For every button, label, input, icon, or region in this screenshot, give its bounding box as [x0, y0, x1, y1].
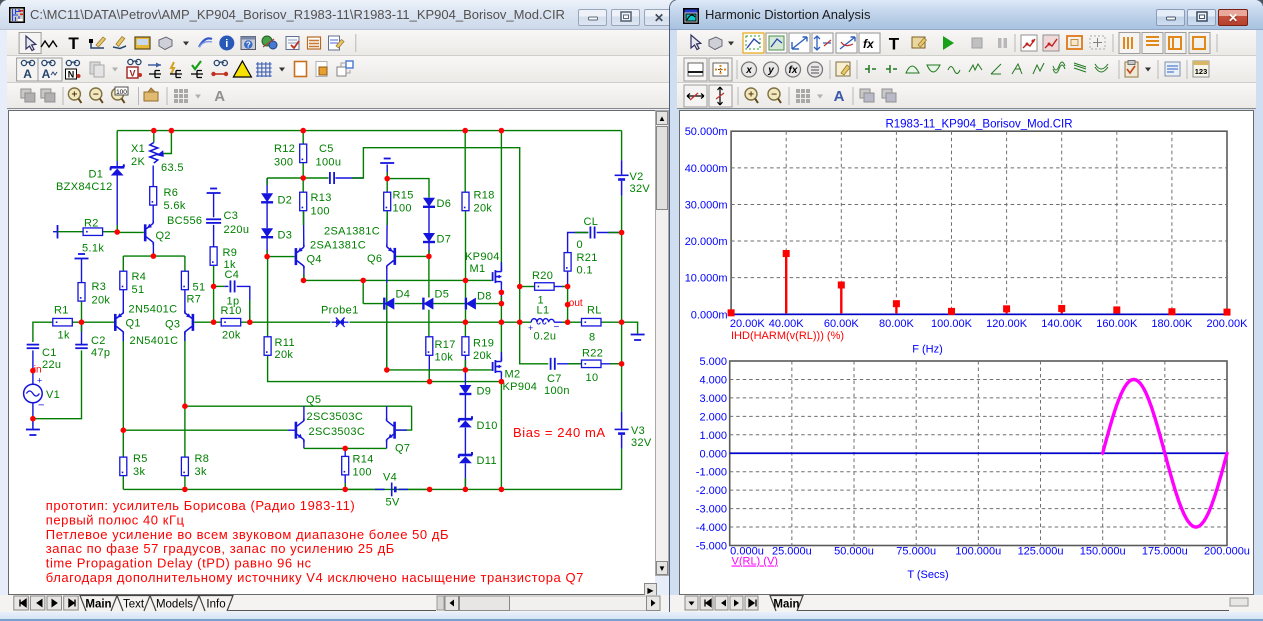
svg-text:Q6: Q6	[367, 253, 382, 265]
wire D1 to R2 node	[116, 161, 118, 167]
svg-text:M2: M2	[505, 369, 521, 381]
svg-text:C2: C2	[91, 335, 106, 347]
wire R8 column	[184, 406, 186, 457]
svg-text:5.000: 5.000	[699, 356, 727, 368]
svg-text:BC556: BC556	[167, 215, 202, 227]
svg-text:F (Hz): F (Hz)	[912, 344, 943, 356]
wire Q3 collector down	[184, 331, 186, 406]
transient plot x labels	[730, 546, 1250, 558]
svg-text:220u: 220u	[224, 224, 250, 236]
wire Q3 collector rail to Q7	[185, 405, 412, 407]
wire C5 right corner up	[335, 177, 363, 179]
wire 519 rail corner to C7	[520, 322, 549, 364]
svg-text:R17: R17	[435, 339, 456, 351]
potentiometer X1	[150, 143, 158, 164]
svg-text:Петлевое усиление во всем звук: Петлевое усиление во всем звуковом диапа…	[46, 527, 449, 542]
wire probe to D-row column	[350, 321, 466, 323]
wire M2 gate rail	[387, 369, 492, 371]
wire X1 top	[153, 131, 155, 143]
wire D7 to Q6 base node	[428, 243, 430, 257]
svg-text:3.000: 3.000	[699, 393, 727, 405]
wire Q7 collector tap	[386, 406, 388, 421]
resistor R8	[181, 457, 188, 476]
wire D6-D7 column	[428, 207, 430, 233]
wire D10-D11	[464, 428, 466, 455]
svg-text:20k: 20k	[474, 203, 493, 215]
svg-text:22u: 22u	[42, 359, 61, 371]
svg-text:40.000m: 40.000m	[685, 163, 728, 175]
wire V3 to bottom rail	[621, 449, 623, 490]
svg-text:150.000u: 150.000u	[1080, 546, 1126, 558]
svg-text:R1: R1	[54, 305, 69, 317]
junction dots 381 rail	[427, 379, 433, 385]
wire D5 column to R17	[428, 310, 430, 337]
junction dot R22 right	[619, 361, 625, 367]
diode D8	[465, 298, 467, 310]
battery V3	[621, 412, 623, 429]
capacitor CL	[589, 227, 591, 239]
svg-text:fx: fx	[789, 65, 798, 76]
resistor R22	[582, 360, 602, 368]
svg-text:50.000m: 50.000m	[685, 126, 728, 138]
svg-text:10: 10	[586, 372, 599, 384]
svg-text:5.1k: 5.1k	[82, 243, 104, 255]
svg-text:M1: M1	[470, 263, 486, 275]
junction dot R18 bottom	[463, 278, 469, 284]
junction dot Q6 base	[426, 254, 432, 260]
wire D9 top	[464, 370, 466, 385]
svg-text:30.000m: 30.000m	[685, 199, 728, 211]
resistor R14	[342, 456, 349, 475]
svg-text:C5: C5	[319, 143, 334, 155]
svg-text:47p: 47p	[91, 347, 110, 359]
harmonic zero baseline	[731, 313, 1227, 315]
wire R15 to Q6 emitter	[386, 211, 388, 247]
vertical scrollbar	[655, 110, 669, 576]
svg-text:20.00K: 20.00K	[730, 318, 766, 330]
wire bottom rail right	[501, 488, 621, 490]
svg-text:KP904: KP904	[465, 251, 500, 263]
wire Q4 base	[267, 256, 295, 258]
capacitor C3	[206, 218, 221, 220]
junction dots M2 gate rail	[384, 367, 390, 373]
wire R14 bottom	[344, 475, 346, 489]
svg-text:51: 51	[193, 282, 206, 294]
svg-text:Q5: Q5	[306, 394, 321, 406]
svg-text:первый полюс 40 кГц: первый полюс 40 кГц	[46, 512, 185, 527]
svg-text:R19: R19	[473, 338, 494, 350]
wire right rail CL to RL	[621, 233, 623, 323]
wire R5 column bottom	[122, 476, 124, 490]
svg-text:Probe1: Probe1	[321, 305, 359, 317]
wire C7 right to R22	[557, 363, 581, 365]
wire bottom rail	[123, 488, 501, 490]
harmonic bars IHD	[728, 250, 1231, 316]
svg-text:2SA1381C: 2SA1381C	[310, 240, 366, 252]
svg-text:C4: C4	[225, 269, 240, 281]
wire 381 rail to M2 source	[430, 381, 502, 383]
svg-text:0.000: 0.000	[699, 448, 727, 460]
wire top +32V rail	[117, 130, 621, 132]
resistor RL	[582, 318, 602, 326]
svg-text:Models: Models	[156, 599, 193, 611]
wire R13 top	[302, 178, 304, 192]
svg-text:63.5: 63.5	[161, 162, 184, 174]
inductor L1	[531, 319, 554, 323]
left window title bar	[0, 0, 677, 30]
resistor R2	[83, 228, 103, 236]
diode D5	[422, 298, 424, 310]
svg-text:160.00K: 160.00K	[1096, 318, 1138, 330]
resistor R19	[462, 337, 469, 356]
svg-text:D10: D10	[477, 420, 498, 432]
wire C2 to main node	[81, 322, 83, 344]
svg-text:R8: R8	[195, 453, 210, 465]
svg-text:300: 300	[274, 157, 293, 169]
resistor R20	[535, 283, 555, 291]
wire rail to V2	[621, 131, 623, 161]
wire top rail to M1 drain	[500, 131, 502, 268]
wire mid rail to R4	[122, 256, 124, 271]
ground above C3	[210, 188, 217, 190]
capacitor C2	[75, 344, 88, 346]
resistor R1	[53, 318, 73, 326]
wire R15 node to D6 top	[387, 179, 429, 198]
svg-text:5V: 5V	[386, 497, 400, 509]
mosfet M1	[492, 272, 494, 281]
svg-text:75.000u: 75.000u	[896, 546, 936, 558]
svg-text:3k: 3k	[133, 466, 145, 478]
svg-text:20.000m: 20.000m	[685, 236, 728, 248]
svg-text:120.00K: 120.00K	[986, 318, 1028, 330]
wire gate rail to D-row corner	[362, 280, 364, 303]
junction dots input stage	[121, 427, 127, 433]
resistor R6	[150, 187, 157, 206]
svg-text:запас по фазе 57 градусов, зап: запас по фазе 57 градусов, запас по усил…	[46, 541, 395, 556]
svg-text:KP904: KP904	[503, 381, 538, 393]
svg-text:R22: R22	[582, 348, 603, 360]
svg-text:Q1: Q1	[126, 318, 141, 330]
svg-text:D7: D7	[437, 234, 452, 246]
harmonic plot frame	[731, 131, 1227, 314]
svg-text:51: 51	[132, 284, 145, 296]
wire R11 bottom corner	[268, 356, 430, 382]
svg-text:32V: 32V	[631, 437, 652, 449]
svg-text:3k: 3k	[195, 466, 207, 478]
svg-text:D3: D3	[278, 230, 293, 242]
wire R2 to D1 node	[103, 231, 117, 233]
svg-text:IHD(HARM(v(RL))) (%): IHD(HARM(v(RL))) (%)	[731, 330, 844, 342]
wire right rail R22 to V3	[621, 364, 623, 412]
wire C4 node down to main	[213, 286, 215, 322]
transistor Q3 (PNP mirrored)	[192, 314, 195, 331]
wire gate rail (Q4 collector to M1 gate)	[304, 279, 492, 281]
svg-text:100.000u: 100.000u	[955, 546, 1001, 558]
wire out to RL	[567, 321, 581, 323]
wire V4 left	[345, 488, 384, 490]
junction dot Q4 collector	[301, 278, 307, 284]
svg-text:BZX84C12: BZX84C12	[56, 181, 113, 193]
ground above R3	[78, 253, 85, 255]
wire R12 to C5 node	[302, 163, 304, 178]
junction dots M1 source	[499, 290, 505, 296]
resistor R12	[300, 144, 307, 163]
svg-text:100: 100	[311, 206, 330, 218]
transient plot grid	[730, 361, 1227, 546]
wire D1 branch top	[116, 131, 118, 161]
svg-text:V1: V1	[46, 389, 60, 401]
svg-text:D8: D8	[477, 291, 492, 303]
svg-text:10k: 10k	[435, 352, 454, 364]
wire gnd to R3	[81, 259, 83, 283]
wire R20 left	[520, 286, 535, 288]
svg-text:0.000m: 0.000m	[691, 309, 728, 321]
resistor R4	[120, 271, 127, 290]
svg-text:80.00K: 80.00K	[879, 318, 915, 330]
wire top rail to R12	[302, 131, 304, 145]
wire RL gnd stub	[622, 322, 638, 334]
wire R9/C4 node	[213, 266, 215, 287]
left toolbars	[7, 30, 670, 56]
wire D2 top	[266, 178, 268, 193]
wire C3 to R9	[213, 225, 215, 247]
svg-text:20k: 20k	[473, 350, 492, 362]
svg-text:R3: R3	[92, 281, 107, 293]
svg-text:125.000u: 125.000u	[1018, 546, 1064, 558]
svg-text:2N5401C: 2N5401C	[129, 304, 178, 316]
svg-text:2SC3503C: 2SC3503C	[309, 426, 366, 438]
wire input node to R1	[33, 322, 53, 342]
transistor Q2 (PNP)	[144, 224, 147, 241]
wire Q4 collector down	[303, 266, 305, 281]
wire Q6 emitter column down	[386, 266, 388, 370]
svg-text:-3.000: -3.000	[696, 504, 727, 516]
svg-text:R21: R21	[577, 252, 598, 264]
wire Q1 collector to Q5 base	[123, 429, 288, 431]
wire 519 rail down	[519, 287, 521, 323]
svg-text:D4: D4	[396, 289, 411, 301]
svg-text:+: +	[528, 323, 533, 333]
diode D4	[383, 298, 385, 310]
node in	[30, 368, 36, 374]
svg-text:R4: R4	[132, 271, 147, 283]
wire main to M-column	[465, 321, 519, 323]
svg-text:time Propagation Delay (tPD) р: time Propagation Delay (tPD) равно 96 нс	[46, 556, 312, 571]
harmonic plot x labels	[730, 318, 1248, 330]
transistor Q6 (PNP mirrored)	[393, 248, 396, 265]
svg-text:прототип: усилитель Борисова (: прототип: усилитель Борисова (Радио 1983…	[46, 498, 355, 513]
wire D9-D10	[464, 395, 466, 420]
svg-text:−: −	[771, 90, 777, 101]
wire Q4 base node down R11	[267, 257, 269, 337]
resistor R15	[384, 192, 391, 211]
svg-text:20k: 20k	[222, 330, 241, 342]
wire mid rail (Q2 to R4/R7)	[123, 255, 185, 257]
junction dots left	[30, 416, 36, 422]
svg-text:R14: R14	[353, 454, 374, 466]
svg-text:D9: D9	[477, 386, 492, 398]
svg-text:123: 123	[1195, 67, 1208, 76]
wire R19 top	[464, 322, 466, 337]
wire in node to V1	[32, 371, 34, 385]
wire Q5 collector tap	[303, 406, 305, 421]
svg-text:140.00K: 140.00K	[1041, 318, 1083, 330]
wire C1 to in node	[32, 350, 34, 370]
wire C5 left	[303, 177, 328, 179]
wire D5 column (Q6 base node down)	[428, 256, 430, 297]
wire R19 bottom	[464, 356, 466, 370]
svg-text:Q3: Q3	[165, 319, 180, 331]
svg-text:100: 100	[393, 203, 412, 215]
wire R7 to Q3 emitter	[184, 290, 186, 314]
schematic client area	[8, 110, 655, 595]
svg-text:A: A	[834, 88, 845, 105]
node out	[565, 302, 571, 308]
transistor Q1 (PNP)	[114, 314, 117, 331]
svg-text:Q7: Q7	[395, 443, 410, 455]
svg-text:in: in	[34, 365, 42, 376]
wire R3 to main node	[81, 301, 83, 322]
probe Probe1	[332, 321, 338, 323]
svg-text:D5: D5	[435, 289, 450, 301]
svg-text:D2: D2	[278, 195, 293, 207]
transient zero line	[730, 452, 1227, 454]
zener diode D11	[458, 454, 472, 457]
svg-text:+: +	[37, 376, 42, 386]
capacitor C4	[229, 280, 231, 292]
capacitor C5	[329, 172, 331, 184]
svg-text:−: −	[38, 400, 44, 412]
svg-text:R9: R9	[223, 247, 238, 259]
svg-text:8: 8	[589, 332, 595, 344]
wire R15 gnd stem	[386, 165, 388, 179]
wire RL to right rail	[601, 321, 622, 323]
junction dot Q4 base	[264, 254, 270, 260]
svg-text:200.000u: 200.000u	[1204, 546, 1250, 558]
svg-text:20k: 20k	[92, 295, 111, 307]
wire R13 to Q4 emitter	[303, 211, 305, 247]
resistor R11	[264, 337, 271, 356]
svg-text:fx: fx	[863, 37, 875, 51]
svg-text:0.2u: 0.2u	[534, 331, 557, 343]
wire D-row	[363, 303, 384, 305]
svg-text:RL: RL	[587, 305, 602, 317]
svg-text:2SC3503C: 2SC3503C	[307, 411, 364, 423]
svg-text:y: y	[767, 65, 774, 76]
diode D7	[423, 233, 435, 242]
harmonic plot grid	[731, 131, 1227, 314]
svg-text:2.000: 2.000	[699, 411, 727, 423]
svg-text:-4.000: -4.000	[696, 522, 727, 534]
svg-text:20k: 20k	[275, 349, 294, 361]
wire C3 gnd stem	[213, 193, 215, 217]
wire Q7 base corner	[396, 406, 412, 430]
diode D3	[261, 228, 273, 237]
svg-text:R6: R6	[164, 187, 179, 199]
junction dot R12/C5/R13	[300, 175, 306, 181]
svg-text:Text: Text	[123, 599, 145, 611]
wire V2 to CL node	[621, 196, 623, 233]
svg-text:R1983-11_KP904_Borisov_Mod.CIR: R1983-11_KP904_Borisov_Mod.CIR	[885, 119, 1072, 131]
svg-text:4.000: 4.000	[699, 374, 727, 386]
svg-text:C3: C3	[224, 210, 239, 222]
wire R21 bottom to out	[567, 272, 569, 287]
wire V1 to C2 column	[33, 350, 82, 418]
wire R1 to main node	[72, 321, 114, 323]
svg-text:180.00K: 180.00K	[1151, 318, 1193, 330]
svg-text:x: x	[745, 65, 752, 76]
svg-text:Q2: Q2	[156, 230, 171, 242]
svg-text:V4: V4	[383, 472, 397, 484]
svg-text:R2: R2	[84, 218, 99, 230]
svg-text:A: A	[214, 88, 225, 105]
svg-text:D6: D6	[437, 198, 452, 210]
svg-text:100.00K: 100.00K	[931, 318, 973, 330]
svg-text:CL: CL	[584, 216, 599, 228]
svg-text:X1: X1	[131, 143, 145, 155]
svg-text:Info: Info	[206, 599, 225, 611]
svg-text:N: N	[68, 70, 75, 80]
wire Q5 emitter	[303, 440, 305, 449]
junction dots R20	[517, 284, 523, 290]
wire R18 node to D8 bar	[465, 280, 467, 297]
plot client area	[679, 110, 1254, 595]
junction dots R9/C4	[211, 284, 217, 290]
tab bar	[0, 595, 677, 612]
svg-text:200.00K: 200.00K	[1207, 318, 1249, 330]
wire Q6 base to D7 node	[396, 255, 429, 257]
ground above R15	[384, 158, 391, 160]
resistor R9	[210, 247, 217, 265]
wire main horizontal Q3 to R10	[194, 321, 221, 323]
svg-text:5.6k: 5.6k	[164, 200, 186, 212]
battery V2	[621, 160, 623, 174]
svg-text:Main: Main	[85, 599, 111, 611]
junction dot D-row left	[360, 278, 366, 284]
wire X1 to R6	[152, 166, 154, 187]
transistor Q5 (NPN)	[295, 422, 298, 439]
wire emitter join	[304, 447, 387, 449]
wire M1 source column	[500, 286, 502, 304]
junction dot CL	[619, 230, 625, 236]
wire R22 to right rail	[601, 363, 622, 365]
wire D3 to Q4 base node	[266, 238, 268, 257]
svg-text:T (Secs): T (Secs)	[907, 569, 948, 581]
svg-text:1.000: 1.000	[699, 430, 727, 442]
resistor R17	[426, 337, 433, 356]
svg-text:?: ?	[246, 41, 251, 50]
resistor R3	[78, 283, 85, 302]
svg-text:V: V	[129, 69, 135, 79]
harmonic plot y labels	[685, 126, 728, 321]
svg-text:R20: R20	[532, 270, 553, 282]
capacitor C1	[27, 344, 40, 346]
svg-text:32V: 32V	[630, 183, 651, 195]
svg-text:V(RL) (V): V(RL) (V)	[732, 556, 778, 568]
svg-text:0: 0	[577, 239, 583, 251]
junction dot D1/R2/Q2	[114, 229, 120, 235]
svg-text:-2.000: -2.000	[696, 485, 727, 497]
transistor Q4 (PNP)	[295, 248, 298, 265]
wire M2 drain	[500, 322, 502, 361]
svg-text:D1: D1	[89, 169, 104, 181]
svg-text:+: +	[748, 90, 754, 101]
wire R17 bottom to 381 rail	[428, 356, 430, 382]
wire Q2 emitter to mid rail	[152, 242, 154, 256]
junction dots main wire	[463, 319, 469, 325]
wire mid rail to R7	[184, 256, 186, 271]
svg-text:благодаря дополнительному исто: благодаря дополнительному источнику V4 и…	[46, 570, 584, 585]
